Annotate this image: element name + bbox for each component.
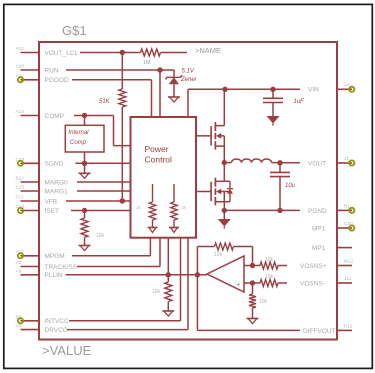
svg-text:1uF: 1uF (294, 99, 305, 105)
svg-text:MARG0: MARG0 (45, 179, 69, 186)
svg-text:G$1: G$1 (62, 23, 87, 38)
svg-text:10k: 10k (214, 252, 223, 258)
svg-text:1M: 1M (143, 60, 151, 66)
svg-text:10k: 10k (265, 274, 274, 280)
svg-text:B12: B12 (16, 176, 25, 181)
svg-text:VOSNS+: VOSNS+ (300, 263, 327, 270)
svg-text:>NAME: >NAME (195, 46, 221, 55)
svg-text:10k: 10k (152, 289, 161, 295)
svg-text:MARG1: MARG1 (45, 188, 69, 195)
svg-text:DRVCC: DRVCC (45, 327, 68, 334)
svg-text:TRACK/SS: TRACK/SS (45, 264, 78, 271)
svg-text:10k: 10k (96, 233, 105, 239)
svg-text:F12: F12 (16, 195, 24, 200)
svg-text:Control: Control (145, 155, 173, 165)
svg-text:A8: A8 (16, 260, 22, 265)
svg-text:K12: K12 (344, 323, 353, 328)
svg-text:VOSNS-: VOSNS- (300, 280, 325, 287)
svg-text:B1: B1 (344, 203, 350, 208)
svg-text:51K: 51K (99, 99, 111, 105)
svg-text:10k: 10k (259, 299, 268, 305)
svg-text:MPGM: MPGM (45, 253, 65, 260)
svg-text:PLLIN: PLLIN (45, 272, 63, 279)
svg-text:COMP: COMP (45, 113, 65, 120)
svg-text:Power: Power (145, 144, 169, 154)
svg-text:A12: A12 (16, 46, 25, 51)
svg-text:C12: C12 (16, 185, 25, 190)
svg-text:J1: J1 (344, 156, 349, 161)
svg-text:MP1: MP1 (312, 245, 326, 252)
svg-text:M12: M12 (344, 259, 354, 264)
svg-text:A13: A13 (16, 109, 25, 114)
svg-text:SGND: SGND (45, 161, 64, 168)
svg-text:VIN: VIN (308, 87, 319, 94)
svg-text:PGOOD: PGOOD (45, 77, 70, 84)
svg-text:5.1V: 5.1V (182, 69, 195, 75)
svg-text:Internal: Internal (69, 130, 90, 136)
svg-text:1k: 1k (136, 205, 142, 210)
svg-text:INTVCC: INTVCC (45, 318, 70, 325)
svg-text:Zener: Zener (180, 77, 198, 83)
svg-text:1k: 1k (181, 205, 187, 210)
svg-text:VOUT: VOUT (308, 160, 326, 167)
svg-text:MP1: MP1 (312, 225, 326, 232)
svg-text:VOUT_LCL: VOUT_LCL (45, 50, 79, 57)
svg-text:Comp: Comp (70, 140, 87, 146)
svg-text:10k: 10k (265, 257, 274, 263)
svg-text:A4: A4 (344, 82, 350, 87)
svg-text:DIFFVOUT: DIFFVOUT (303, 328, 336, 335)
svg-text:fSET: fSET (45, 208, 59, 215)
svg-text:A9: A9 (16, 268, 22, 273)
svg-text:>VALUE: >VALUE (42, 343, 92, 358)
svg-text:C6: C6 (16, 323, 22, 328)
svg-text:PGND: PGND (308, 208, 327, 215)
svg-text:+: + (237, 283, 241, 289)
svg-text:J12: J12 (344, 276, 352, 281)
svg-text:RUN: RUN (45, 67, 59, 74)
svg-text:A10: A10 (16, 64, 25, 69)
svg-text:VFB: VFB (45, 198, 58, 205)
svg-text:10u: 10u (285, 183, 296, 189)
